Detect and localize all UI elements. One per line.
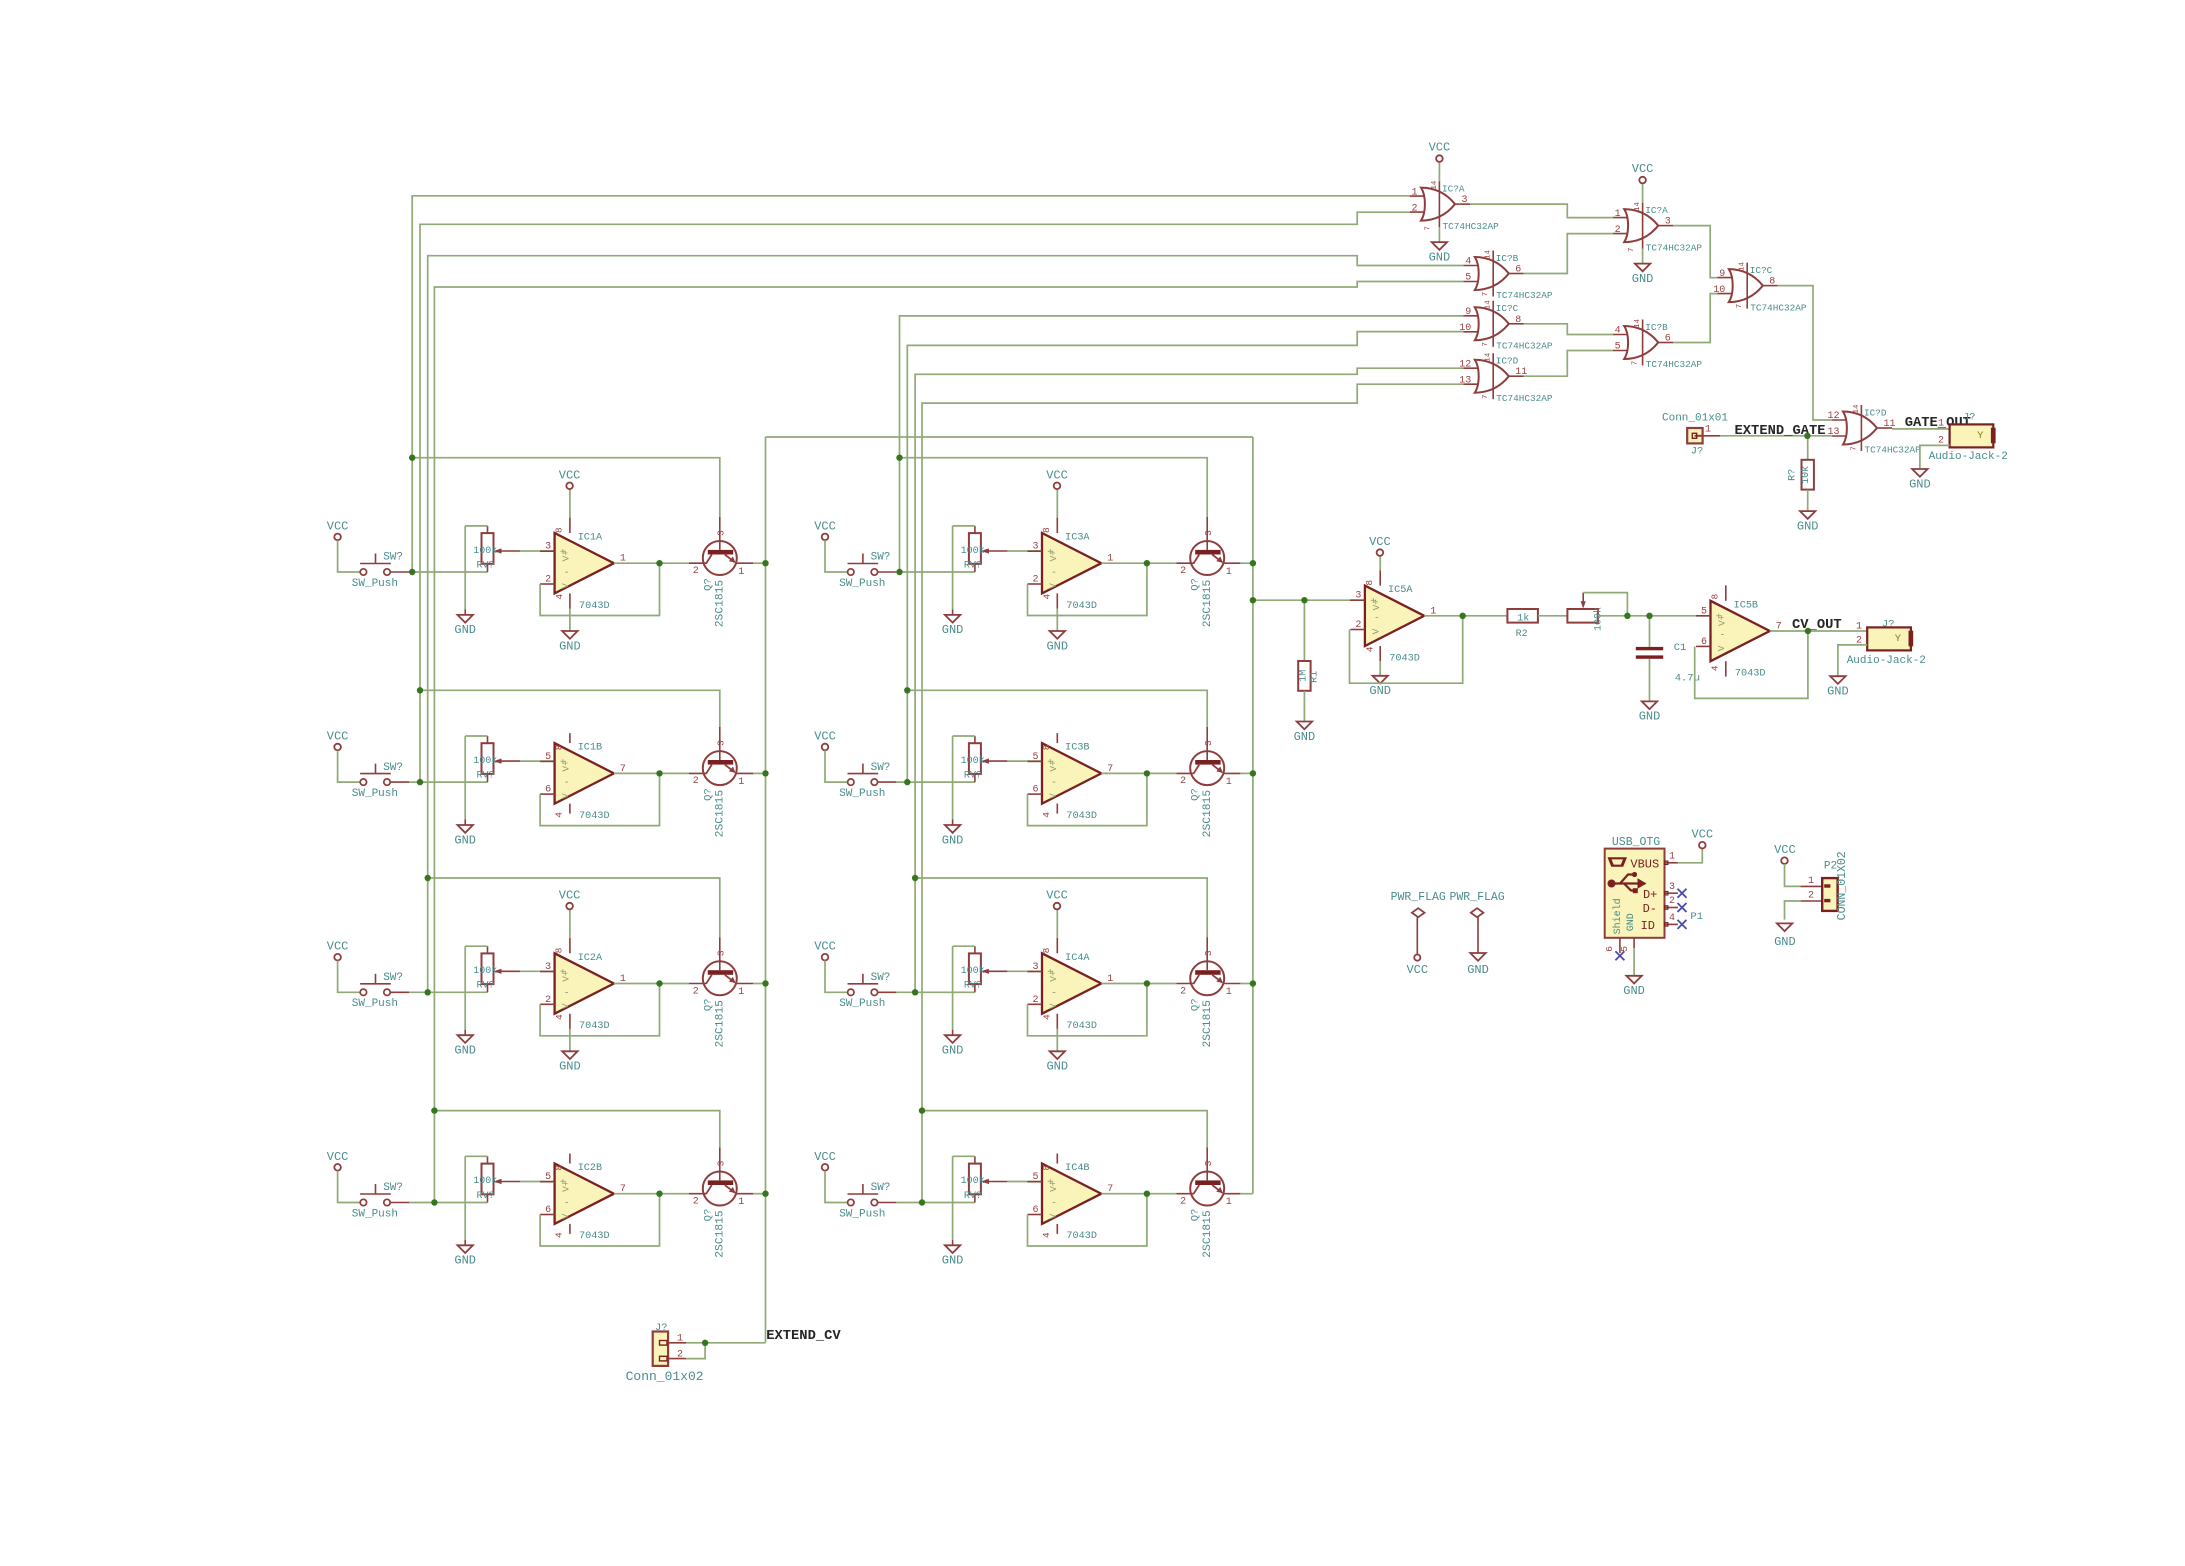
svg-text:3: 3 bbox=[716, 530, 727, 536]
svg-text:PWR_FLAG: PWR_FLAG bbox=[1449, 891, 1504, 904]
svg-text:V+: V+ bbox=[1048, 550, 1059, 562]
svg-text:RV?: RV? bbox=[477, 1191, 495, 1202]
svg-text:IC2A: IC2A bbox=[578, 953, 603, 964]
svg-text:GND: GND bbox=[1623, 984, 1645, 998]
svg-text:8: 8 bbox=[1364, 580, 1375, 586]
svg-text:8: 8 bbox=[1710, 593, 1721, 599]
svg-text:IC2B: IC2B bbox=[578, 1163, 602, 1174]
svg-text:5: 5 bbox=[545, 752, 551, 763]
svg-text:Q?: Q? bbox=[1190, 998, 1202, 1011]
svg-text:7: 7 bbox=[1850, 446, 1858, 451]
svg-text:V+: V+ bbox=[561, 970, 572, 982]
svg-text:8: 8 bbox=[554, 527, 565, 533]
svg-text:C1: C1 bbox=[1674, 642, 1687, 654]
svg-text:13: 13 bbox=[1459, 375, 1471, 386]
svg-text:14: 14 bbox=[1485, 300, 1493, 310]
svg-text:7: 7 bbox=[1482, 292, 1490, 297]
svg-text:TC74HC32AP: TC74HC32AP bbox=[1496, 290, 1553, 301]
svg-text:8: 8 bbox=[1041, 1165, 1052, 1171]
svg-text:GND: GND bbox=[1632, 272, 1654, 286]
svg-text:GND: GND bbox=[1909, 477, 1931, 491]
svg-text:6: 6 bbox=[545, 785, 551, 796]
svg-text:Q?: Q? bbox=[1190, 788, 1202, 801]
svg-text:VCC: VCC bbox=[559, 889, 581, 903]
svg-text:7043D: 7043D bbox=[579, 811, 610, 822]
svg-text:VCC: VCC bbox=[814, 940, 836, 954]
svg-text:2SC1815: 2SC1815 bbox=[715, 1000, 727, 1048]
svg-text:V: V bbox=[560, 1213, 571, 1219]
svg-text:V+: V+ bbox=[561, 1180, 572, 1192]
svg-text:14: 14 bbox=[1485, 352, 1493, 362]
svg-text:V: V bbox=[1048, 583, 1059, 589]
svg-text:2: 2 bbox=[1180, 1197, 1186, 1208]
svg-text:GND: GND bbox=[1774, 935, 1796, 949]
svg-text:100k: 100k bbox=[473, 965, 497, 977]
svg-text:GND: GND bbox=[942, 1254, 964, 1268]
svg-text:SW_Push: SW_Push bbox=[352, 578, 398, 590]
svg-text:RV?: RV? bbox=[477, 770, 495, 781]
svg-text:IC4B: IC4B bbox=[1065, 1163, 1089, 1174]
svg-text:V: V bbox=[1048, 1003, 1059, 1009]
svg-text:7: 7 bbox=[1482, 342, 1490, 347]
svg-text:IC5A: IC5A bbox=[1388, 585, 1413, 596]
svg-text:3: 3 bbox=[1032, 542, 1038, 553]
svg-text:1: 1 bbox=[738, 567, 744, 578]
svg-text:5: 5 bbox=[1032, 752, 1038, 763]
svg-text:3: 3 bbox=[545, 542, 551, 553]
svg-text:V+: V+ bbox=[1717, 614, 1728, 626]
svg-text:14: 14 bbox=[1634, 319, 1642, 329]
svg-text:V: V bbox=[560, 583, 571, 589]
svg-text:GND: GND bbox=[454, 1044, 476, 1058]
svg-text:VCC: VCC bbox=[327, 940, 349, 954]
svg-text:TC74HC32AP: TC74HC32AP bbox=[1646, 242, 1703, 253]
svg-text:5: 5 bbox=[1465, 273, 1471, 284]
svg-text:2: 2 bbox=[1180, 776, 1186, 787]
svg-text:SW?: SW? bbox=[871, 972, 891, 984]
svg-text:SW_Push: SW_Push bbox=[839, 998, 885, 1010]
svg-text:IC?C: IC?C bbox=[1496, 303, 1519, 314]
svg-text:IC5B: IC5B bbox=[1734, 600, 1758, 611]
svg-text:2: 2 bbox=[1032, 995, 1038, 1006]
svg-text:6: 6 bbox=[1665, 334, 1671, 345]
svg-text:IC?D: IC?D bbox=[1496, 356, 1519, 367]
svg-text:GND: GND bbox=[1639, 710, 1661, 724]
svg-text:3: 3 bbox=[1665, 217, 1671, 228]
svg-text:VCC: VCC bbox=[1046, 468, 1068, 482]
svg-text:5: 5 bbox=[1615, 342, 1621, 353]
svg-text:100k: 100k bbox=[473, 545, 497, 557]
svg-text:V: V bbox=[560, 1003, 571, 1009]
svg-text:CV_OUT: CV_OUT bbox=[1792, 618, 1842, 633]
svg-text:EXTEND_GATE: EXTEND_GATE bbox=[1735, 424, 1826, 439]
svg-text:5: 5 bbox=[1701, 606, 1707, 617]
svg-text:IC?C: IC?C bbox=[1750, 265, 1773, 276]
svg-text:VCC: VCC bbox=[814, 519, 836, 533]
svg-text:14: 14 bbox=[1634, 202, 1642, 212]
svg-text:SW_Push: SW_Push bbox=[839, 578, 885, 590]
svg-text:Q?: Q? bbox=[702, 1209, 714, 1222]
svg-text:14: 14 bbox=[1485, 250, 1493, 260]
svg-text:8: 8 bbox=[554, 1165, 565, 1171]
svg-text:5: 5 bbox=[1619, 946, 1630, 952]
svg-text:14: 14 bbox=[1431, 180, 1439, 190]
svg-text:GND: GND bbox=[1429, 250, 1451, 264]
svg-text:TC74HC32AP: TC74HC32AP bbox=[1646, 359, 1703, 370]
svg-text:Audio-Jack-2: Audio-Jack-2 bbox=[1929, 451, 2008, 463]
svg-text:VCC: VCC bbox=[814, 1150, 836, 1164]
svg-text:Y: Y bbox=[1895, 633, 1902, 645]
svg-text:TC74HC32AP: TC74HC32AP bbox=[1496, 393, 1553, 404]
svg-text:2SC1815: 2SC1815 bbox=[715, 580, 727, 628]
svg-text:RV?: RV? bbox=[964, 560, 982, 571]
svg-text:1: 1 bbox=[1226, 777, 1232, 788]
svg-text:4: 4 bbox=[1042, 1014, 1053, 1020]
svg-text:2: 2 bbox=[693, 1197, 699, 1208]
svg-text:Conn_01x02: Conn_01x02 bbox=[626, 1369, 704, 1384]
svg-text:GND: GND bbox=[559, 1060, 581, 1074]
svg-text:V+: V+ bbox=[1048, 760, 1059, 772]
svg-text:1: 1 bbox=[1938, 419, 1944, 430]
svg-text:SW_Push: SW_Push bbox=[352, 998, 398, 1010]
svg-text:J?: J? bbox=[1882, 619, 1895, 631]
svg-text:2: 2 bbox=[1669, 896, 1675, 907]
svg-text:4: 4 bbox=[554, 1014, 565, 1020]
svg-text:TC74HC32AP: TC74HC32AP bbox=[1443, 221, 1500, 232]
svg-text:GND: GND bbox=[454, 623, 476, 637]
svg-text:9: 9 bbox=[1465, 307, 1471, 318]
svg-text:GND: GND bbox=[1369, 684, 1391, 698]
svg-text:IC?B: IC?B bbox=[1645, 322, 1668, 333]
svg-text:IC?B: IC?B bbox=[1496, 253, 1519, 264]
svg-text:2: 2 bbox=[693, 566, 699, 577]
svg-text:2SC1815: 2SC1815 bbox=[1202, 1210, 1214, 1258]
svg-text:4.7µ: 4.7µ bbox=[1675, 673, 1700, 685]
svg-text:VCC: VCC bbox=[327, 1150, 349, 1164]
svg-text:8: 8 bbox=[1515, 315, 1521, 326]
svg-text:3: 3 bbox=[1669, 882, 1675, 893]
svg-text:2: 2 bbox=[545, 575, 551, 586]
svg-text:D-: D- bbox=[1643, 902, 1657, 916]
svg-text:3: 3 bbox=[1462, 195, 1468, 206]
svg-text:J?: J? bbox=[1963, 411, 1976, 423]
svg-text:GND: GND bbox=[454, 833, 476, 847]
svg-text:V: V bbox=[1048, 1213, 1059, 1219]
svg-text:7043D: 7043D bbox=[1389, 653, 1420, 664]
svg-text:J?: J? bbox=[1691, 446, 1704, 458]
svg-text:2: 2 bbox=[1808, 891, 1814, 902]
svg-text:SW?: SW? bbox=[871, 552, 891, 564]
svg-text:4: 4 bbox=[1710, 665, 1721, 671]
svg-text:1: 1 bbox=[1615, 209, 1621, 220]
svg-text:RV?: RV? bbox=[964, 770, 982, 781]
svg-text:IC?A: IC?A bbox=[1645, 205, 1668, 216]
svg-text:1: 1 bbox=[1226, 1197, 1232, 1208]
svg-text:8: 8 bbox=[1769, 277, 1775, 288]
svg-text:10k: 10k bbox=[1800, 466, 1812, 484]
svg-text:3: 3 bbox=[1203, 530, 1214, 536]
svg-text:4: 4 bbox=[1041, 1232, 1052, 1238]
svg-text:7043D: 7043D bbox=[579, 601, 610, 612]
svg-text:SW?: SW? bbox=[383, 762, 403, 774]
svg-text:IC?D: IC?D bbox=[1864, 407, 1887, 418]
svg-text:4: 4 bbox=[1041, 812, 1052, 818]
svg-text:-: - bbox=[1051, 778, 1057, 789]
svg-text:GND: GND bbox=[1827, 685, 1849, 699]
svg-text:4: 4 bbox=[554, 812, 565, 818]
svg-text:Q?: Q? bbox=[1190, 578, 1202, 591]
svg-text:Shield: Shield bbox=[1612, 898, 1624, 934]
svg-text:4: 4 bbox=[554, 1232, 565, 1238]
svg-text:5: 5 bbox=[1032, 1172, 1038, 1183]
svg-text:8: 8 bbox=[554, 744, 565, 750]
svg-text:1k: 1k bbox=[1517, 612, 1529, 624]
svg-text:SW?: SW? bbox=[383, 552, 403, 564]
svg-text:2SC1815: 2SC1815 bbox=[1202, 1000, 1214, 1048]
svg-text:7043D: 7043D bbox=[1066, 601, 1097, 612]
svg-text:R?: R? bbox=[1788, 469, 1799, 481]
svg-text:1: 1 bbox=[738, 1197, 744, 1208]
svg-text:Conn_01x01: Conn_01x01 bbox=[1662, 413, 1728, 425]
svg-text:J?: J? bbox=[655, 1322, 668, 1334]
svg-text:3: 3 bbox=[1355, 591, 1361, 602]
svg-text:4: 4 bbox=[1042, 594, 1053, 600]
svg-text:-: - bbox=[1374, 614, 1380, 625]
svg-text:V: V bbox=[1048, 793, 1059, 799]
svg-text:-: - bbox=[1051, 988, 1057, 999]
svg-text:PWR_FLAG: PWR_FLAG bbox=[1391, 891, 1446, 904]
svg-text:2: 2 bbox=[1032, 575, 1038, 586]
svg-text:Q?: Q? bbox=[1190, 1209, 1202, 1222]
svg-text:V+: V+ bbox=[1048, 970, 1059, 982]
svg-text:IC?A: IC?A bbox=[1442, 183, 1465, 194]
svg-text:14: 14 bbox=[1853, 404, 1861, 414]
svg-text:-: - bbox=[1719, 630, 1725, 641]
svg-text:GND: GND bbox=[942, 833, 964, 847]
svg-text:GND: GND bbox=[1046, 639, 1068, 653]
svg-text:R1: R1 bbox=[1309, 671, 1320, 683]
svg-text:SW_Push: SW_Push bbox=[352, 788, 398, 800]
svg-text:8: 8 bbox=[1041, 744, 1052, 750]
svg-text:USB_OTG: USB_OTG bbox=[1612, 836, 1660, 849]
svg-text:-: - bbox=[1051, 1199, 1057, 1210]
svg-text:TC74HC32AP: TC74HC32AP bbox=[1496, 341, 1553, 352]
svg-text:2: 2 bbox=[1180, 566, 1186, 577]
svg-text:V+: V+ bbox=[1048, 1180, 1059, 1192]
svg-text:100k: 100k bbox=[473, 1175, 497, 1187]
svg-text:R2: R2 bbox=[1516, 629, 1528, 640]
svg-text:IC4A: IC4A bbox=[1065, 953, 1090, 964]
svg-text:SW_Push: SW_Push bbox=[352, 1208, 398, 1220]
svg-text:7: 7 bbox=[1736, 304, 1744, 309]
svg-text:1: 1 bbox=[1226, 987, 1232, 998]
svg-text:12: 12 bbox=[1459, 359, 1471, 370]
svg-text:IC1B: IC1B bbox=[578, 743, 602, 754]
svg-text:VCC: VCC bbox=[1632, 162, 1654, 176]
svg-text:1: 1 bbox=[1669, 852, 1675, 863]
svg-text:3: 3 bbox=[1203, 950, 1214, 956]
svg-text:IC3A: IC3A bbox=[1065, 533, 1090, 544]
svg-text:EXTEND_CV: EXTEND_CV bbox=[766, 1329, 841, 1344]
svg-text:6: 6 bbox=[1515, 265, 1521, 276]
svg-text:7043D: 7043D bbox=[1066, 811, 1097, 822]
svg-text:SW_Push: SW_Push bbox=[839, 788, 885, 800]
svg-text:4: 4 bbox=[1669, 913, 1675, 924]
svg-text:VCC: VCC bbox=[1774, 843, 1796, 857]
svg-text:GND: GND bbox=[942, 1044, 964, 1058]
svg-text:3: 3 bbox=[716, 1160, 727, 1166]
svg-text:VCC: VCC bbox=[559, 468, 581, 482]
svg-text:Q?: Q? bbox=[702, 578, 714, 591]
svg-text:GND: GND bbox=[1626, 913, 1637, 931]
svg-text:1: 1 bbox=[1808, 876, 1814, 887]
svg-text:6: 6 bbox=[1701, 637, 1707, 648]
svg-text:2: 2 bbox=[693, 776, 699, 787]
svg-text:-: - bbox=[564, 988, 570, 999]
svg-text:RV?: RV? bbox=[964, 981, 982, 992]
svg-text:7043D: 7043D bbox=[579, 1231, 610, 1242]
svg-text:2: 2 bbox=[1355, 620, 1361, 631]
svg-text:2: 2 bbox=[1615, 225, 1621, 236]
svg-text:2SC1815: 2SC1815 bbox=[715, 1210, 727, 1258]
svg-text:Q?: Q? bbox=[702, 998, 714, 1011]
svg-text:VCC: VCC bbox=[1369, 535, 1391, 549]
svg-text:TC74HC32AP: TC74HC32AP bbox=[1865, 445, 1922, 456]
svg-text:2: 2 bbox=[677, 1349, 683, 1360]
svg-text:6: 6 bbox=[545, 1205, 551, 1216]
svg-text:4: 4 bbox=[1365, 646, 1376, 652]
svg-text:SW?: SW? bbox=[871, 762, 891, 774]
svg-text:10: 10 bbox=[1459, 323, 1471, 334]
svg-text:6: 6 bbox=[1032, 1205, 1038, 1216]
svg-text:IC3B: IC3B bbox=[1065, 743, 1089, 754]
svg-text:VCC: VCC bbox=[327, 519, 349, 533]
svg-text:2SC1815: 2SC1815 bbox=[1202, 790, 1214, 838]
svg-text:SW_Push: SW_Push bbox=[839, 1208, 885, 1220]
svg-text:VCC: VCC bbox=[1406, 963, 1428, 977]
svg-text:D+: D+ bbox=[1643, 888, 1657, 902]
svg-text:2: 2 bbox=[1180, 986, 1186, 997]
svg-text:V: V bbox=[1371, 628, 1382, 634]
svg-text:Q?: Q? bbox=[702, 788, 714, 801]
svg-text:7043D: 7043D bbox=[579, 1021, 610, 1032]
svg-text:SW?: SW? bbox=[871, 1182, 891, 1194]
svg-text:RV?: RV? bbox=[477, 560, 495, 571]
svg-text:1: 1 bbox=[1411, 187, 1417, 198]
svg-text:100k: 100k bbox=[1593, 607, 1605, 631]
svg-text:7043D: 7043D bbox=[1066, 1231, 1097, 1242]
svg-text:3: 3 bbox=[1032, 962, 1038, 973]
svg-text:V+: V+ bbox=[561, 760, 572, 772]
svg-text:VBUS: VBUS bbox=[1630, 857, 1659, 871]
svg-text:-: - bbox=[564, 568, 570, 579]
svg-text:7043D: 7043D bbox=[1735, 669, 1766, 680]
svg-text:3: 3 bbox=[1203, 1160, 1214, 1166]
svg-text:GND: GND bbox=[1046, 1060, 1068, 1074]
svg-text:1: 1 bbox=[1856, 622, 1862, 633]
svg-text:ID: ID bbox=[1641, 919, 1655, 933]
svg-text:-: - bbox=[564, 1199, 570, 1210]
svg-text:100k: 100k bbox=[961, 545, 985, 557]
svg-text:5: 5 bbox=[545, 1172, 551, 1183]
svg-text:4: 4 bbox=[1615, 326, 1621, 337]
svg-text:4: 4 bbox=[1465, 257, 1471, 268]
svg-text:8: 8 bbox=[1041, 947, 1052, 953]
svg-text:RV?: RV? bbox=[964, 1191, 982, 1202]
svg-text:IC1A: IC1A bbox=[578, 533, 603, 544]
svg-text:SW?: SW? bbox=[383, 1182, 403, 1194]
svg-text:1M: 1M bbox=[1298, 670, 1309, 682]
svg-text:1: 1 bbox=[1705, 425, 1711, 436]
svg-text:P1: P1 bbox=[1690, 911, 1703, 923]
svg-text:VCC: VCC bbox=[327, 730, 349, 744]
svg-text:100k: 100k bbox=[961, 1175, 985, 1187]
svg-text:2SC1815: 2SC1815 bbox=[1202, 580, 1214, 628]
svg-text:100k: 100k bbox=[473, 755, 497, 767]
svg-text:3: 3 bbox=[716, 950, 727, 956]
svg-text:3: 3 bbox=[1203, 740, 1214, 746]
svg-text:V+: V+ bbox=[1371, 599, 1382, 611]
svg-text:VCC: VCC bbox=[1691, 828, 1713, 842]
svg-text:2SC1815: 2SC1815 bbox=[715, 790, 727, 838]
svg-text:Audio-Jack-2: Audio-Jack-2 bbox=[1847, 655, 1926, 667]
svg-text:Y: Y bbox=[1977, 430, 1984, 442]
svg-text:2: 2 bbox=[693, 986, 699, 997]
svg-text:TC74HC32AP: TC74HC32AP bbox=[1750, 302, 1807, 313]
svg-text:6: 6 bbox=[1032, 785, 1038, 796]
svg-text:V+: V+ bbox=[561, 550, 572, 562]
svg-text:8: 8 bbox=[1041, 527, 1052, 533]
svg-text:3: 3 bbox=[716, 740, 727, 746]
svg-text:8: 8 bbox=[554, 947, 565, 953]
svg-text:1: 1 bbox=[1226, 567, 1232, 578]
svg-text:6: 6 bbox=[1604, 946, 1615, 952]
svg-text:1: 1 bbox=[738, 777, 744, 788]
svg-text:V: V bbox=[1716, 645, 1727, 651]
svg-text:VCC: VCC bbox=[1046, 889, 1068, 903]
svg-text:7: 7 bbox=[1482, 394, 1490, 399]
svg-text:2: 2 bbox=[1411, 203, 1417, 214]
svg-text:GND: GND bbox=[1467, 963, 1489, 977]
svg-text:RV?: RV? bbox=[477, 981, 495, 992]
svg-text:GND: GND bbox=[1294, 730, 1316, 744]
svg-text:100k: 100k bbox=[961, 755, 985, 767]
svg-text:1: 1 bbox=[738, 987, 744, 998]
svg-text:VCC: VCC bbox=[1429, 141, 1451, 155]
svg-text:7043D: 7043D bbox=[1066, 1021, 1097, 1032]
svg-text:100k: 100k bbox=[961, 965, 985, 977]
svg-text:7: 7 bbox=[1632, 361, 1640, 366]
svg-text:VCC: VCC bbox=[814, 730, 836, 744]
svg-text:9: 9 bbox=[1719, 269, 1725, 280]
svg-text:7: 7 bbox=[1628, 248, 1636, 253]
svg-text:-: - bbox=[564, 778, 570, 789]
svg-text:-: - bbox=[1051, 568, 1057, 579]
svg-text:2: 2 bbox=[545, 995, 551, 1006]
svg-text:1: 1 bbox=[677, 1334, 683, 1345]
svg-text:GND: GND bbox=[559, 639, 581, 653]
svg-text:GND: GND bbox=[454, 1254, 476, 1268]
svg-text:SW?: SW? bbox=[383, 972, 403, 984]
svg-text:7: 7 bbox=[1425, 226, 1433, 231]
svg-text:4: 4 bbox=[554, 594, 565, 600]
svg-text:14: 14 bbox=[1739, 262, 1747, 272]
svg-text:CONN_01X02: CONN_01X02 bbox=[1836, 851, 1849, 920]
svg-text:GND: GND bbox=[1797, 519, 1819, 533]
svg-text:GND: GND bbox=[942, 623, 964, 637]
svg-text:3: 3 bbox=[545, 962, 551, 973]
svg-text:V: V bbox=[560, 793, 571, 799]
